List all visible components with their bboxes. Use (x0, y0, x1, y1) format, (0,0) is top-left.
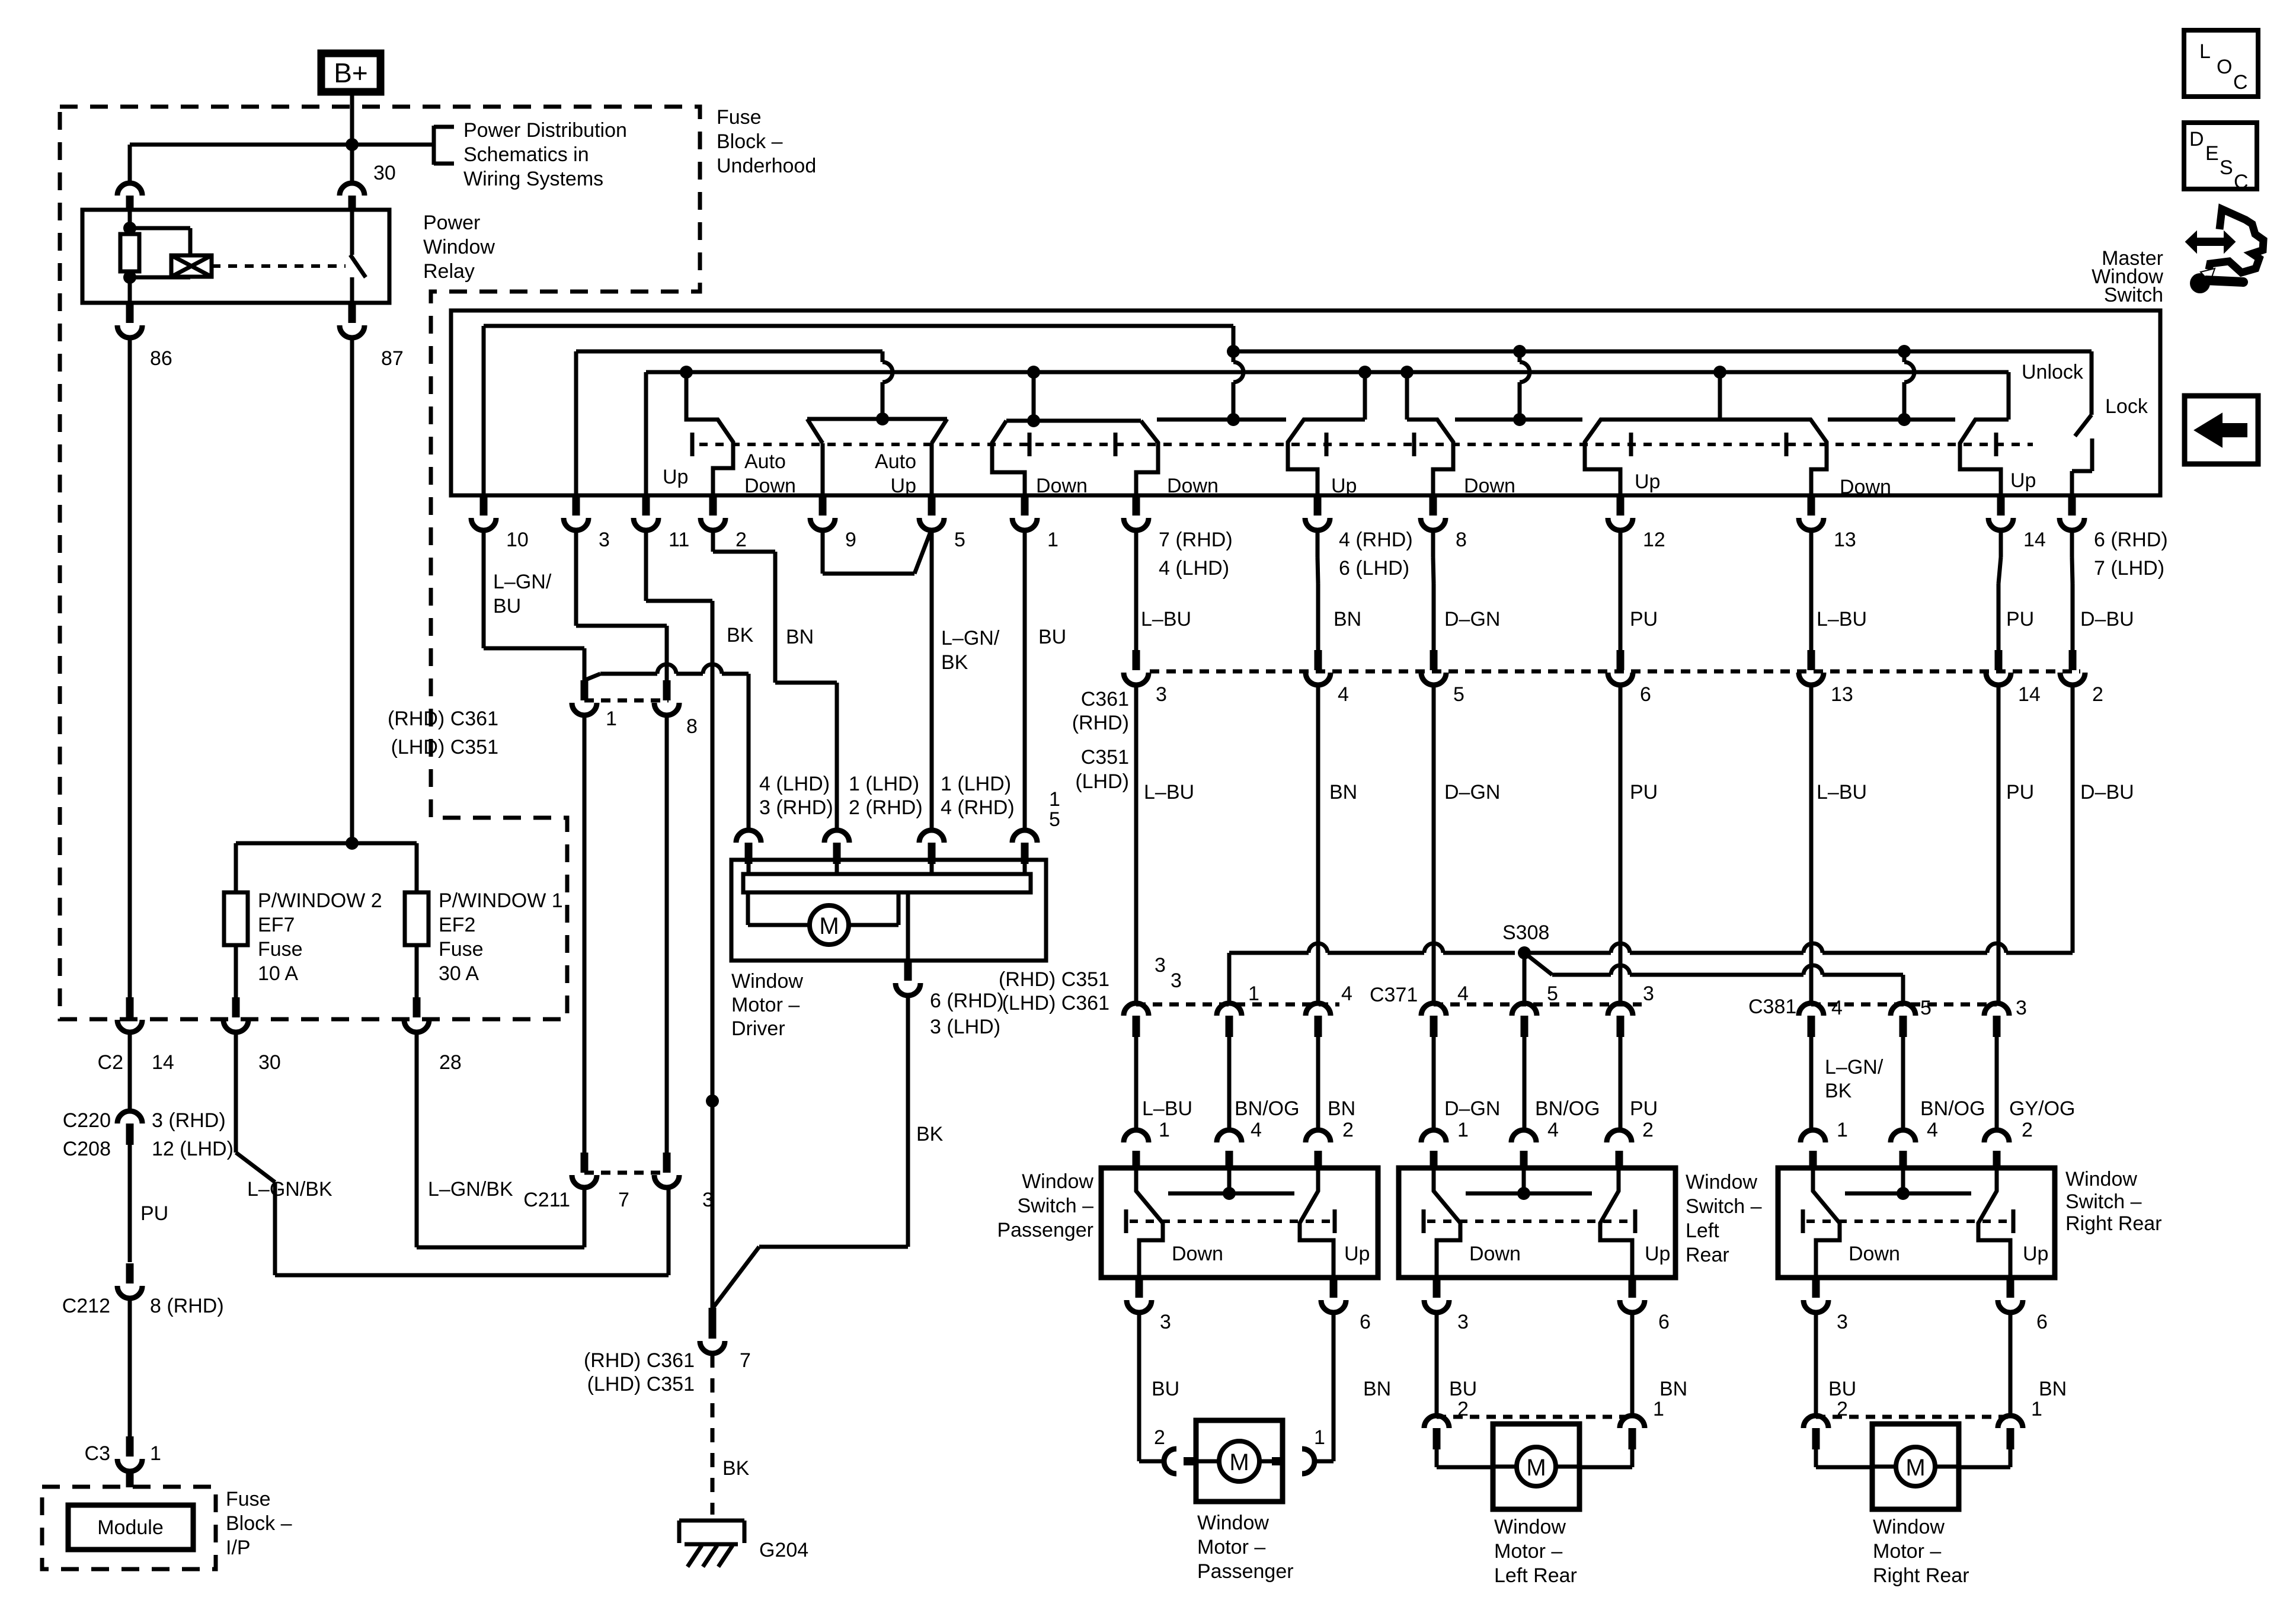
svg-text:L–BU: L–BU (1141, 608, 1191, 630)
svg-text:BK: BK (727, 624, 754, 646)
svg-text:Window: Window (1873, 1516, 1945, 1538)
svg-text:5: 5 (1547, 982, 1558, 1005)
svg-text:(RHD) C351: (RHD) C351 (999, 968, 1109, 991)
svg-text:BU: BU (1449, 1378, 1477, 1400)
svg-text:Schematics in: Schematics in (463, 143, 589, 166)
svg-text:Motor –: Motor – (1494, 1540, 1562, 1563)
svg-text:(RHD): (RHD) (1072, 712, 1129, 734)
svg-text:O: O (2217, 56, 2232, 78)
svg-text:C371: C371 (1370, 984, 1418, 1006)
svg-text:3: 3 (1643, 982, 1654, 1005)
svg-text:(LHD) C351: (LHD) C351 (391, 736, 498, 758)
svg-text:4: 4 (1338, 683, 1349, 706)
svg-text:1: 1 (1159, 1119, 1170, 1141)
svg-text:1: 1 (1314, 1426, 1325, 1449)
svg-text:86: 86 (150, 347, 172, 370)
svg-text:Left: Left (1686, 1219, 1719, 1242)
svg-text:Down: Down (1849, 1243, 1900, 1265)
svg-text:14: 14 (2018, 683, 2041, 706)
svg-text:EF2: EF2 (439, 914, 475, 936)
svg-text:4 (LHD): 4 (LHD) (759, 773, 830, 795)
svg-text:2: 2 (2022, 1119, 2033, 1141)
svg-text:C: C (2233, 71, 2248, 94)
svg-text:3: 3 (1155, 954, 1166, 977)
svg-text:M: M (1526, 1455, 1546, 1481)
svg-text:3: 3 (1457, 1311, 1469, 1333)
svg-text:M: M (819, 913, 839, 939)
svg-text:Fuse: Fuse (258, 938, 303, 961)
svg-text:6 (RHD): 6 (RHD) (2094, 529, 2168, 551)
svg-text:P/WINDOW 1: P/WINDOW 1 (439, 889, 563, 912)
svg-text:Switch: Switch (2104, 284, 2163, 306)
svg-text:BN: BN (1334, 608, 1361, 630)
svg-text:4: 4 (1547, 1119, 1559, 1141)
svg-text:L: L (2199, 40, 2211, 63)
svg-text:4 (RHD): 4 (RHD) (1339, 529, 1413, 551)
svg-text:8: 8 (686, 715, 698, 738)
svg-text:3 (RHD): 3 (RHD) (759, 796, 833, 819)
svg-text:Window: Window (731, 970, 803, 993)
svg-text:BN/OG: BN/OG (1535, 1097, 1600, 1120)
svg-text:7: 7 (618, 1189, 629, 1211)
svg-text:14: 14 (2023, 529, 2046, 551)
svg-text:Driver: Driver (731, 1017, 785, 1040)
svg-text:C2: C2 (98, 1051, 123, 1074)
svg-text:Motor –: Motor – (731, 994, 800, 1016)
svg-text:Down: Down (1036, 475, 1088, 497)
svg-text:Passenger: Passenger (997, 1219, 1093, 1241)
svg-text:4 (RHD): 4 (RHD) (941, 796, 1015, 819)
svg-text:8 (RHD): 8 (RHD) (150, 1295, 224, 1317)
svg-text:PU: PU (2006, 608, 2034, 630)
svg-text:87: 87 (381, 347, 404, 370)
svg-text:PU: PU (1630, 1097, 1658, 1120)
svg-text:BN: BN (1363, 1378, 1391, 1400)
svg-text:5: 5 (954, 529, 965, 551)
svg-text:Up: Up (1331, 475, 1357, 497)
svg-text:6: 6 (1640, 683, 1651, 706)
svg-text:C3: C3 (85, 1442, 110, 1465)
svg-text:(RHD) C361: (RHD) C361 (584, 1349, 695, 1372)
svg-text:7: 7 (740, 1349, 751, 1372)
svg-text:BN: BN (1659, 1378, 1687, 1400)
svg-text:BK: BK (722, 1457, 750, 1480)
svg-text:BU: BU (493, 595, 521, 617)
svg-text:S308: S308 (1502, 921, 1549, 944)
svg-text:9: 9 (845, 529, 856, 551)
svg-text:1: 1 (1248, 982, 1259, 1005)
svg-text:D–GN: D–GN (1444, 608, 1500, 630)
svg-text:6: 6 (2036, 1311, 2048, 1333)
svg-text:3 (LHD): 3 (LHD) (930, 1016, 1000, 1038)
svg-text:Unlock: Unlock (2022, 361, 2084, 383)
svg-text:1: 1 (1457, 1119, 1469, 1141)
svg-text:D–GN: D–GN (1444, 1097, 1500, 1120)
svg-text:Down: Down (1840, 476, 1891, 498)
svg-text:Power: Power (423, 212, 480, 234)
svg-text:4: 4 (1457, 982, 1469, 1005)
svg-text:Window: Window (423, 236, 495, 258)
svg-text:8: 8 (1456, 529, 1467, 551)
svg-text:BU: BU (1038, 626, 1066, 648)
svg-text:Up: Up (663, 466, 688, 488)
svg-text:Down: Down (1167, 475, 1219, 497)
svg-text:D–BU: D–BU (2080, 608, 2134, 630)
svg-text:EF7: EF7 (258, 914, 295, 936)
svg-text:10: 10 (506, 529, 529, 551)
svg-text:Down: Down (744, 475, 796, 497)
svg-text:1 (LHD): 1 (LHD) (941, 773, 1011, 795)
svg-text:S: S (2220, 156, 2233, 179)
svg-text:4: 4 (1831, 997, 1843, 1019)
svg-text:3: 3 (1160, 1311, 1171, 1333)
svg-text:2 (RHD): 2 (RHD) (849, 796, 923, 819)
svg-text:6: 6 (1658, 1311, 1670, 1333)
svg-text:4: 4 (1341, 982, 1352, 1005)
svg-text:3 (RHD): 3 (RHD) (152, 1109, 226, 1132)
svg-text:BK: BK (1825, 1080, 1852, 1102)
svg-text:13: 13 (1831, 683, 1853, 706)
svg-text:Fuse: Fuse (226, 1488, 271, 1510)
svg-text:14: 14 (152, 1051, 174, 1074)
svg-text:C220: C220 (63, 1109, 111, 1132)
svg-text:Motor –: Motor – (1873, 1540, 1941, 1563)
svg-text:C212: C212 (62, 1295, 110, 1317)
svg-text:3: 3 (1156, 683, 1167, 706)
svg-text:Fuse: Fuse (717, 106, 762, 129)
svg-text:Auto: Auto (744, 450, 786, 473)
svg-text:12: 12 (1643, 529, 1665, 551)
svg-text:28: 28 (439, 1051, 462, 1074)
svg-text:7 (LHD): 7 (LHD) (2094, 557, 2164, 580)
svg-text:(LHD) C361: (LHD) C361 (1002, 992, 1109, 1014)
svg-text:2: 2 (1342, 1119, 1354, 1141)
svg-text:1: 1 (1049, 788, 1060, 811)
svg-text:L–BU: L–BU (1817, 608, 1867, 630)
svg-text:M: M (1905, 1455, 1925, 1481)
svg-text:PU: PU (2006, 781, 2034, 804)
svg-text:3: 3 (1171, 969, 1182, 992)
svg-text:1: 1 (1047, 529, 1059, 551)
svg-text:PU: PU (1630, 781, 1658, 804)
svg-text:4: 4 (1251, 1119, 1262, 1141)
svg-text:BK: BK (916, 1123, 944, 1145)
svg-text:C: C (2234, 171, 2249, 193)
svg-text:Window: Window (1494, 1516, 1566, 1538)
svg-text:L–GN/: L–GN/ (1825, 1056, 1884, 1078)
svg-text:D–GN: D–GN (1444, 781, 1500, 804)
svg-text:Rear: Rear (1686, 1244, 1729, 1266)
svg-text:1: 1 (1653, 1398, 1664, 1420)
svg-text:Block –: Block – (226, 1512, 292, 1535)
svg-text:Auto: Auto (875, 450, 916, 473)
svg-text:2: 2 (2092, 683, 2103, 706)
svg-text:BN/OG: BN/OG (1235, 1097, 1300, 1120)
svg-text:BN/OG: BN/OG (1920, 1097, 1985, 1120)
svg-text:Window: Window (1022, 1170, 1093, 1193)
svg-text:BU: BU (1152, 1378, 1179, 1400)
svg-text:1 (LHD): 1 (LHD) (849, 773, 919, 795)
svg-text:M: M (1229, 1449, 1249, 1475)
svg-text:3: 3 (2016, 997, 2027, 1019)
svg-text:30 A: 30 A (439, 962, 479, 985)
svg-text:G204: G204 (759, 1539, 808, 1561)
svg-text:Power Distribution: Power Distribution (463, 119, 627, 142)
svg-text:6 (RHD): 6 (RHD) (930, 990, 1004, 1012)
svg-text:1: 1 (606, 708, 617, 730)
svg-text:Passenger: Passenger (1197, 1560, 1294, 1583)
svg-text:Up: Up (891, 475, 916, 497)
svg-text:13: 13 (1834, 529, 1856, 551)
svg-text:C381: C381 (1748, 996, 1796, 1018)
svg-text:2: 2 (1837, 1398, 1848, 1420)
svg-text:PU: PU (1630, 608, 1658, 630)
svg-text:5: 5 (1453, 683, 1464, 706)
svg-text:BK: BK (941, 651, 968, 674)
svg-text:(LHD): (LHD) (1075, 770, 1129, 793)
svg-text:(LHD) C351: (LHD) C351 (587, 1373, 695, 1395)
svg-text:BN: BN (2039, 1378, 2067, 1400)
svg-text:C361: C361 (1081, 688, 1129, 710)
svg-text:30: 30 (258, 1051, 281, 1074)
svg-text:Right Rear: Right Rear (2065, 1212, 2162, 1235)
svg-text:Left Rear: Left Rear (1494, 1564, 1577, 1587)
svg-text:BN: BN (1328, 1097, 1355, 1120)
svg-text:L–GN/BK: L–GN/BK (428, 1178, 513, 1201)
svg-text:Window: Window (2065, 1168, 2137, 1190)
svg-text:BN: BN (786, 626, 814, 648)
svg-text:3: 3 (1837, 1311, 1848, 1333)
svg-text:2: 2 (1457, 1398, 1469, 1420)
svg-text:B+: B+ (334, 57, 368, 88)
svg-text:Up: Up (1635, 470, 1660, 493)
svg-text:GY/OG: GY/OG (2009, 1097, 2075, 1120)
svg-text:1: 1 (1837, 1119, 1848, 1141)
svg-text:4: 4 (1927, 1119, 1938, 1141)
svg-text:E: E (2205, 142, 2219, 165)
svg-text:5: 5 (1049, 808, 1060, 831)
svg-text:3: 3 (599, 529, 610, 551)
svg-text:L–BU: L–BU (1142, 1097, 1192, 1120)
svg-text:6 (LHD): 6 (LHD) (1339, 557, 1409, 580)
svg-text:2: 2 (736, 529, 747, 551)
svg-text:L–GN/: L–GN/ (493, 571, 552, 593)
svg-text:Lock: Lock (2105, 395, 2148, 418)
svg-text:Wiring Systems: Wiring Systems (463, 168, 603, 190)
svg-text:Relay: Relay (423, 260, 475, 283)
svg-text:12 (LHD): 12 (LHD) (152, 1138, 234, 1160)
svg-text:Up: Up (1344, 1243, 1370, 1265)
svg-text:Block –: Block – (717, 130, 783, 153)
svg-text:Fuse: Fuse (439, 938, 484, 961)
svg-text:(RHD) C361: (RHD) C361 (388, 708, 498, 730)
svg-text:Right Rear: Right Rear (1873, 1564, 1969, 1587)
svg-text:L–GN/BK: L–GN/BK (247, 1178, 332, 1201)
svg-text:Window: Window (1197, 1512, 1269, 1534)
svg-text:L–BU: L–BU (1144, 781, 1194, 804)
svg-text:1: 1 (150, 1442, 161, 1465)
svg-text:6: 6 (1360, 1311, 1371, 1333)
svg-text:5: 5 (1920, 997, 1932, 1019)
svg-text:Switch –: Switch – (1686, 1195, 1762, 1218)
svg-text:BN: BN (1329, 781, 1357, 804)
svg-text:2: 2 (1642, 1119, 1654, 1141)
svg-text:4 (LHD): 4 (LHD) (1159, 557, 1229, 580)
svg-text:Module: Module (97, 1516, 164, 1539)
svg-text:L–BU: L–BU (1817, 781, 1867, 804)
svg-text:L–GN/: L–GN/ (941, 627, 1000, 649)
svg-text:C351: C351 (1081, 746, 1129, 769)
svg-text:10 A: 10 A (258, 962, 298, 985)
svg-text:30: 30 (373, 162, 396, 184)
svg-text:P/WINDOW 2: P/WINDOW 2 (258, 889, 382, 912)
svg-text:7 (RHD): 7 (RHD) (1159, 529, 1233, 551)
svg-text:I/P: I/P (226, 1537, 251, 1559)
svg-text:BU: BU (1828, 1378, 1856, 1400)
svg-text:Down: Down (1469, 1243, 1521, 1265)
svg-text:1: 1 (2031, 1398, 2042, 1420)
svg-text:C211: C211 (523, 1189, 570, 1211)
svg-text:Up: Up (1645, 1243, 1670, 1265)
svg-text:D–BU: D–BU (2080, 781, 2134, 804)
svg-text:Switch –: Switch – (2065, 1190, 2142, 1213)
svg-text:Underhood: Underhood (717, 155, 816, 177)
svg-text:Window: Window (1686, 1171, 1757, 1193)
svg-text:Motor –: Motor – (1197, 1536, 1265, 1558)
svg-text:C208: C208 (63, 1138, 111, 1160)
svg-text:Down: Down (1464, 475, 1515, 497)
svg-text:PU: PU (140, 1202, 168, 1225)
svg-text:Switch –: Switch – (1018, 1195, 1094, 1217)
svg-text:2: 2 (1154, 1426, 1165, 1449)
svg-text:D: D (2189, 128, 2204, 151)
svg-text:11: 11 (669, 529, 689, 551)
svg-text:Up: Up (2023, 1243, 2048, 1265)
svg-text:Up: Up (2010, 469, 2036, 492)
svg-text:Down: Down (1172, 1243, 1223, 1265)
